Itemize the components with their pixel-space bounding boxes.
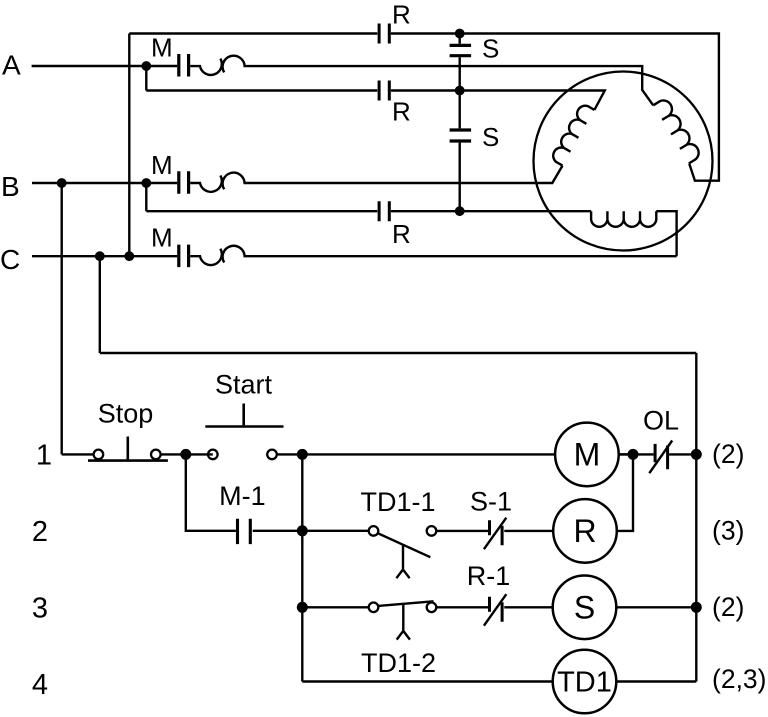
- pushbutton Start (NO): [205, 404, 283, 460]
- svg-text:3: 3: [32, 593, 48, 625]
- svg-text:R-1: R-1: [467, 561, 511, 591]
- wire control feed top: [100, 352, 697, 354]
- node dot B winding tap: [141, 178, 151, 188]
- svg-text:Start: Start: [215, 370, 273, 400]
- svg-text:TD1: TD1: [557, 667, 612, 699]
- svg-text:M: M: [574, 437, 601, 473]
- svg-text:R: R: [392, 0, 411, 30]
- node dot C top-line tap: [124, 251, 134, 261]
- contact R line3: [379, 201, 389, 221]
- wire rung3 mid: [436, 606, 488, 608]
- wire rung3 right: [616, 606, 696, 608]
- wire phase A horizontal: [32, 65, 178, 67]
- wire rung3 to coil S: [504, 606, 552, 608]
- node dot rung3 rail: [691, 602, 702, 613]
- svg-text:(2): (2): [712, 439, 744, 469]
- slash R-1: [484, 594, 506, 626]
- svg-text:C: C: [0, 244, 20, 275]
- contact OL (NC): [655, 444, 668, 469]
- node B tap: [145, 183, 147, 211]
- coil R: [553, 499, 617, 563]
- node rung1 coil out: [619, 453, 628, 455]
- slash S-1: [484, 518, 506, 550]
- svg-text:S-1: S-1: [470, 487, 512, 517]
- wire left vertical C-to-top: [128, 34, 130, 257]
- pushbutton Stop (NC): [88, 437, 168, 461]
- overload heater phase A: [190, 56, 653, 106]
- node dot rung2 bus: [297, 525, 308, 536]
- node dot rung3 bus: [297, 602, 308, 613]
- svg-text:1: 1: [36, 440, 52, 472]
- node dot A tap: [141, 61, 151, 71]
- contact S-1 (NC): [490, 520, 503, 545]
- svg-text:2: 2: [32, 516, 48, 548]
- svg-text:TD1-1: TD1-1: [360, 487, 435, 517]
- contact R line2: [379, 81, 389, 101]
- svg-text:R: R: [392, 219, 411, 249]
- node dot R line2: [455, 86, 465, 96]
- wire rung2 to coil R: [504, 530, 553, 532]
- contact M phase A (NO): [179, 54, 189, 77]
- wire phase B horizontal: [32, 182, 177, 184]
- contact S lower: [450, 130, 472, 141]
- wire R-line bottom (phase B winding return): [146, 211, 676, 256]
- wire seal-in branch vertical: [186, 454, 236, 530]
- wire B drop to control: [61, 183, 63, 454]
- contact TD1-2 (NCTO): [369, 601, 437, 639]
- contact M phase B (NO): [179, 171, 189, 194]
- svg-text:(3): (3): [712, 516, 744, 546]
- wire phase C horizontal: [32, 255, 177, 257]
- node dot R line3: [455, 206, 465, 216]
- svg-text:S: S: [574, 590, 595, 626]
- coil S: [553, 576, 617, 640]
- node dot rung1 bus: [297, 449, 308, 460]
- svg-text:S: S: [482, 122, 499, 152]
- contact M-1 (NO): [238, 519, 251, 544]
- svg-text:4: 4: [32, 669, 48, 701]
- wire top R line: [129, 34, 719, 181]
- wire S bus: [459, 34, 461, 212]
- node dot rung1 coil out: [628, 449, 639, 460]
- node dot B control tap: [57, 178, 67, 188]
- motor stator circle: [534, 72, 713, 251]
- coil TD1: [553, 650, 617, 714]
- contact R-1 (NC): [490, 597, 503, 622]
- svg-text:M: M: [151, 33, 173, 63]
- wire rung2: [253, 530, 369, 532]
- motor winding upper-right: [653, 100, 698, 163]
- svg-text:R: R: [573, 513, 596, 549]
- svg-text:S: S: [482, 34, 499, 64]
- svg-text:A: A: [2, 49, 21, 80]
- svg-text:(2): (2): [712, 592, 744, 622]
- node dot rung1 seal: [180, 449, 191, 460]
- node dot C control tap: [95, 251, 105, 261]
- svg-text:TD1-2: TD1-2: [361, 648, 436, 678]
- motor winding bottom: [591, 211, 656, 227]
- overload heater phase C: [190, 246, 676, 265]
- svg-text:B: B: [1, 171, 20, 202]
- contact R top line: [379, 24, 389, 44]
- contact M phase C (NO): [179, 245, 189, 268]
- wire rung2 mid: [436, 530, 488, 532]
- svg-text:R: R: [392, 97, 411, 127]
- svg-text:(2,3): (2,3): [712, 664, 767, 694]
- svg-text:OL: OL: [643, 406, 679, 436]
- wire rung4 right: [616, 680, 696, 682]
- wire rung1 right of coil: [619, 453, 697, 455]
- node A tap: [145, 66, 147, 91]
- node dot rung1 rail: [691, 449, 702, 460]
- overload heater phase B: [190, 166, 562, 192]
- wire right rail: [695, 353, 697, 682]
- svg-text:Stop: Stop: [98, 399, 154, 429]
- svg-text:M-1: M-1: [219, 481, 266, 511]
- wire coil R to rail branch: [617, 454, 633, 531]
- coil M: [555, 423, 619, 487]
- wire rung3 left: [302, 606, 368, 608]
- wire rung1 to coil M: [277, 453, 555, 455]
- motor winding upper-left: [553, 106, 594, 166]
- svg-text:M: M: [151, 223, 173, 253]
- contact TD1-1 (NOTC): [369, 526, 437, 578]
- svg-text:M: M: [151, 150, 173, 180]
- slash OL: [649, 441, 672, 474]
- wire R-line upper (phase A winding return): [146, 91, 605, 110]
- wire C drop to control feed: [99, 256, 101, 353]
- wire rung1 left: [62, 453, 213, 455]
- contact S upper: [450, 45, 472, 55]
- wire rung4: [302, 680, 552, 682]
- wire bus vertical: [301, 454, 303, 681]
- node dot top R line: [455, 29, 465, 39]
